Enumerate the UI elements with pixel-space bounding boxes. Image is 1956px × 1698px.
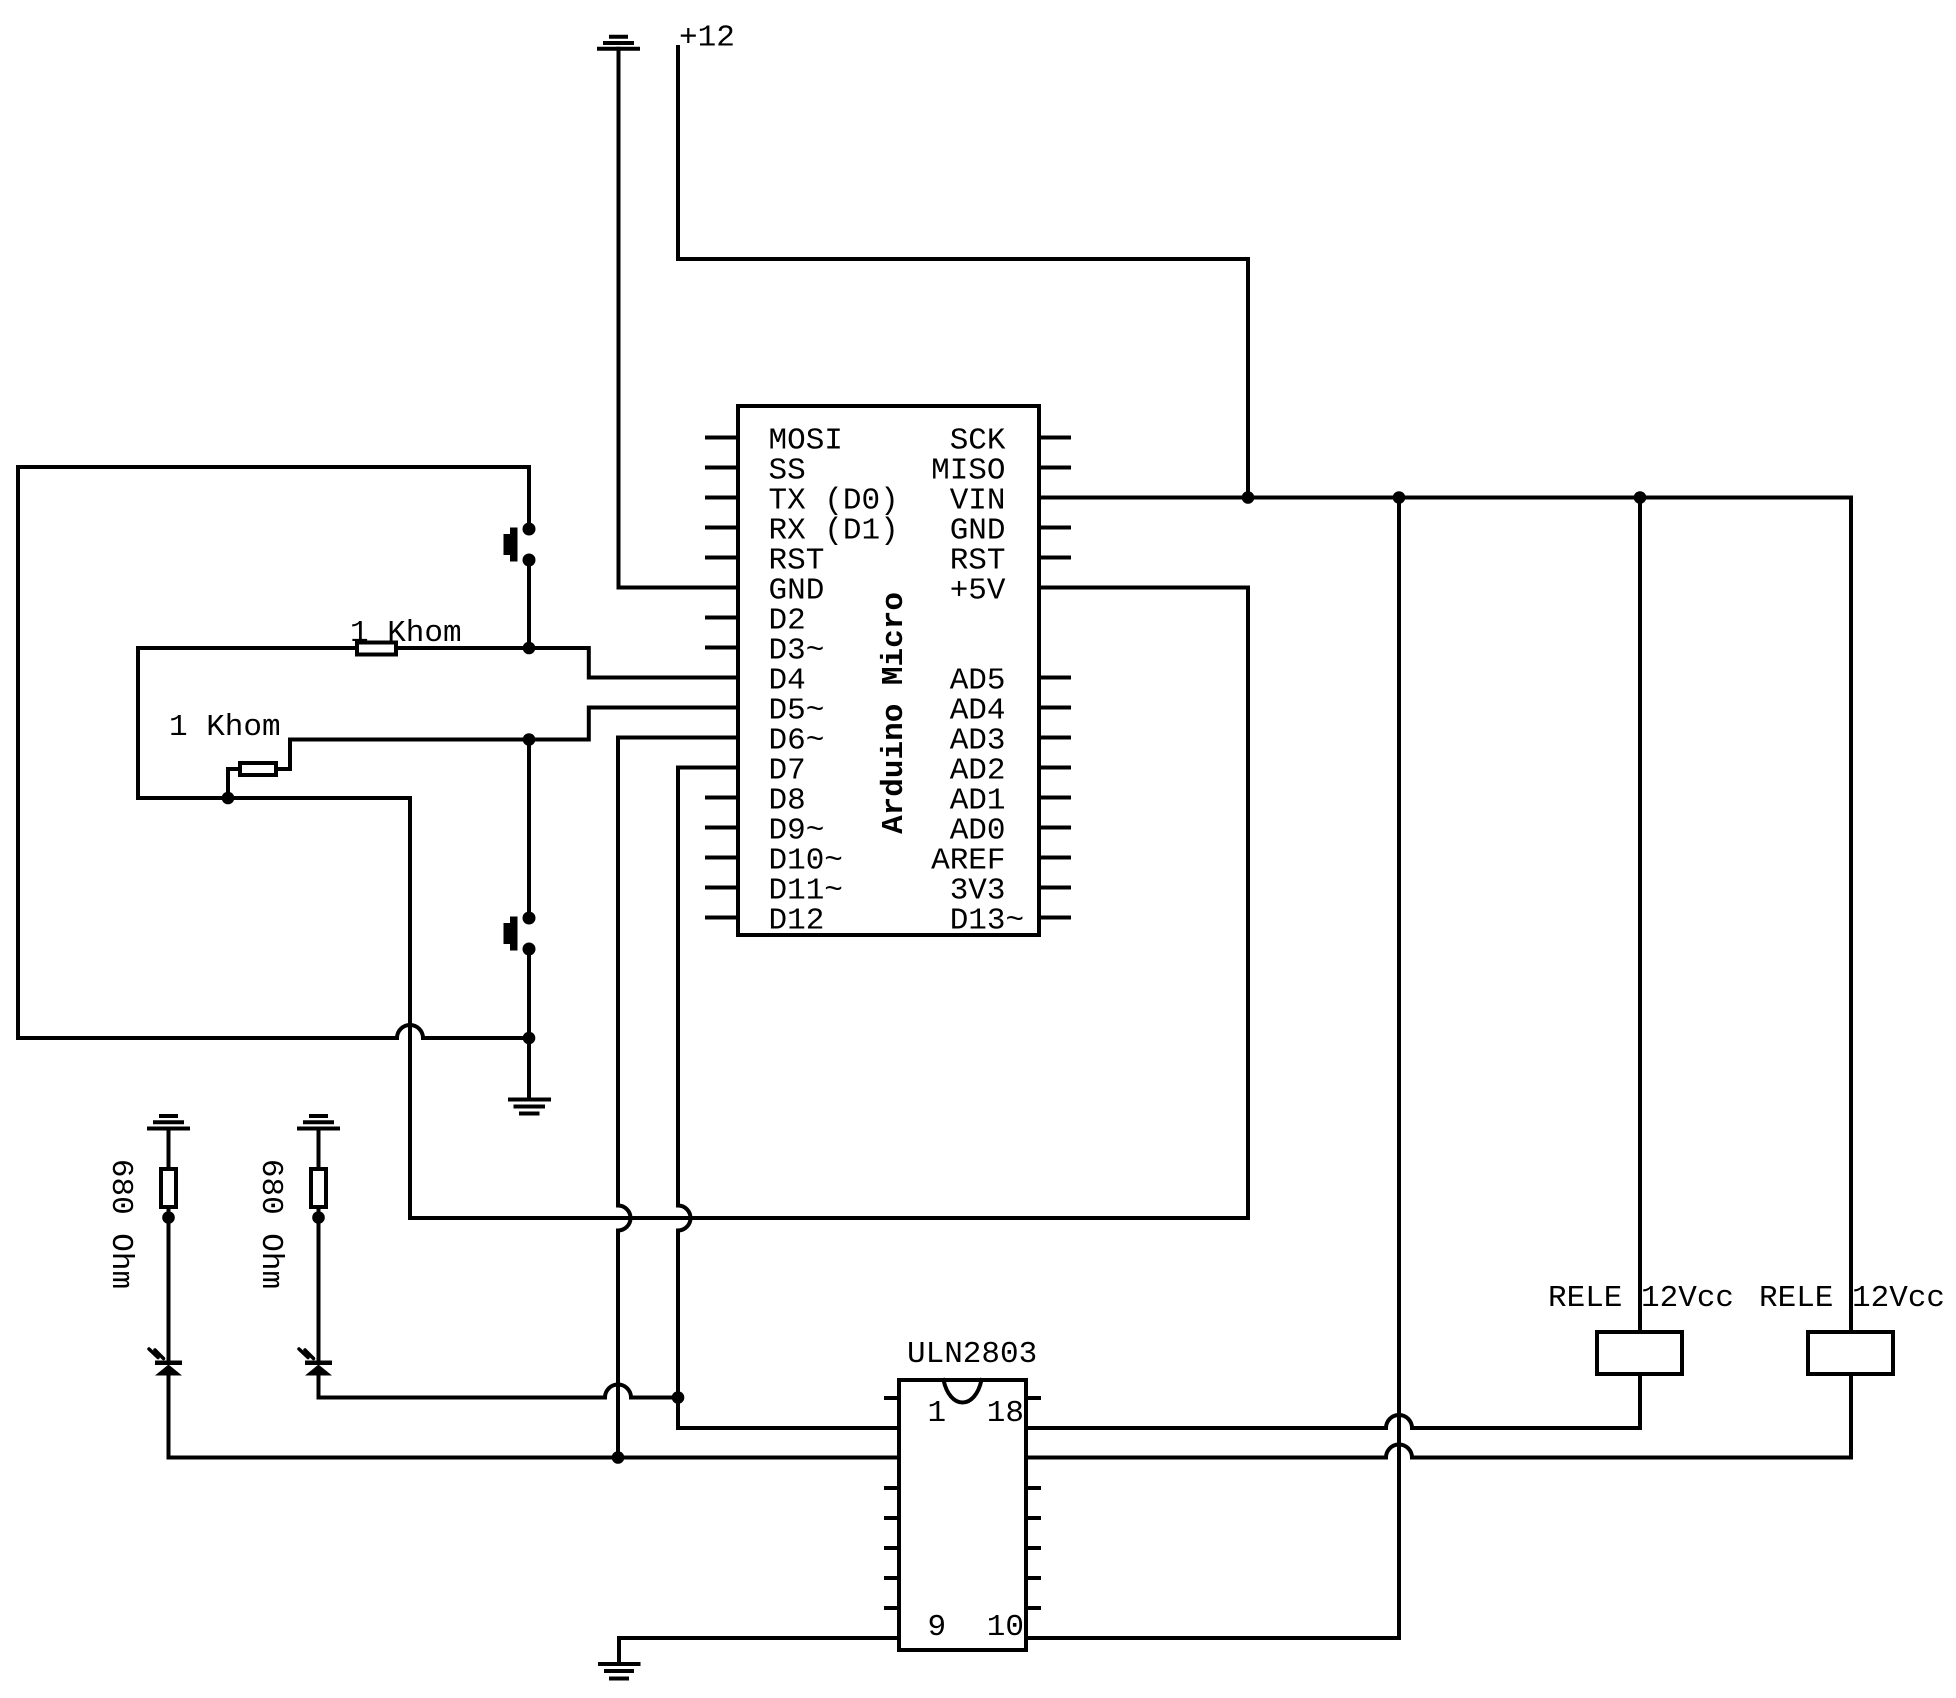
junction S2 top / R2 net <box>523 733 536 746</box>
svg-text:RELE 12Vcc: RELE 12Vcc <box>1759 1281 1945 1316</box>
wire LED1 cathode to ULN pin3 <box>169 1376 900 1458</box>
pushbutton S2 <box>504 912 536 956</box>
wire +12 to VIN rail <box>678 47 1248 498</box>
svg-text:9: 9 <box>928 1610 947 1645</box>
wire D6 to LED1 cathode line <box>618 738 738 1458</box>
junction S1 bottom / R1 net <box>523 642 536 655</box>
wire R2 right terminal jog <box>276 740 290 770</box>
wire relay K1 feed <box>1638 498 1642 1333</box>
wire R3 to LED1 <box>167 1207 171 1361</box>
wire relay K2 feed <box>1849 498 1853 1333</box>
svg-text:+12: +12 <box>679 21 735 56</box>
resistor R4 680 Ohm <box>311 1169 326 1207</box>
svg-text:1 Khom: 1 Khom <box>350 616 462 651</box>
svg-text:ULN2803: ULN2803 <box>907 1337 1037 1372</box>
resistor R3 680 Ohm <box>161 1169 176 1207</box>
svg-text:D13~: D13~ <box>950 904 1024 939</box>
U2 right pin stubs <box>1026 1398 1039 1608</box>
wire GND1 to Arduino GND pin <box>619 49 739 588</box>
svg-text:RELE 12Vcc: RELE 12Vcc <box>1548 1281 1734 1316</box>
junction dot below R3 <box>162 1211 175 1224</box>
svg-text:680 Ohm: 680 Ohm <box>253 1159 288 1289</box>
junction VIN/relay K1 feed <box>1634 491 1647 504</box>
wire S1 bottom to junction <box>527 560 531 648</box>
wire U2 pin9 to ground <box>619 1638 899 1662</box>
ground symbol GND2 (below S2) <box>510 1100 549 1114</box>
ULN2803 U2 body <box>899 1380 1026 1650</box>
wire GND3 to R3 <box>167 1129 171 1170</box>
wire VIN rail <box>1039 496 1851 500</box>
LED2 <box>299 1349 332 1376</box>
U1 right pin labels <box>931 424 1024 939</box>
wire R2/button S2 to D5 <box>290 708 738 740</box>
U1 left pin labels <box>769 424 899 939</box>
svg-text:Arduino Micro: Arduino Micro <box>877 592 912 834</box>
wire D7 to ULN pin2 <box>678 768 899 1429</box>
U2 left pin stubs <box>886 1398 899 1608</box>
svg-text:D12: D12 <box>769 904 825 939</box>
wire K1 to U2 pin17 <box>1026 1374 1640 1428</box>
ground symbol GND4 (LED2 branch) <box>299 1116 338 1129</box>
junction LED1 line / D6 <box>612 1451 625 1464</box>
wire R4 to LED2 <box>317 1207 321 1361</box>
wire LED2 cathode to D7 net <box>319 1376 679 1398</box>
junction R2 / +5V rail <box>222 792 235 805</box>
ground symbol GND1 (top) <box>599 37 638 49</box>
relay K1 coil <box>1597 1332 1682 1374</box>
resistor R2 1 Khom <box>240 763 276 775</box>
wire GND4 to R4 <box>317 1129 321 1170</box>
svg-text:680 Ohm: 680 Ohm <box>103 1159 138 1289</box>
pushbutton S1 <box>504 523 536 567</box>
junction VIN/ULN pin10 feed <box>1393 491 1406 504</box>
svg-text:1: 1 <box>928 1396 947 1431</box>
wire R1/button S1 to D4 <box>138 648 738 678</box>
wire +5V rail to pullup network <box>138 588 1248 1219</box>
U1 right pin stubs (SCK,MISO,GND,RST,AD5,AD4,AD3,AD2,AD1,AD0,AREF,3V3,D13~) <box>1039 438 1069 918</box>
ground symbol GND5 (U2 pin9) <box>600 1664 639 1679</box>
wire S1 top to ground loop <box>18 467 529 1038</box>
junction LED2 line / D7 <box>672 1391 685 1404</box>
svg-text:18: 18 <box>987 1396 1024 1431</box>
junction S2 bottom / loop / ground <box>523 1032 536 1045</box>
resistor R1 1 Khom <box>357 643 396 655</box>
wire VIN to U2 pin10 <box>1026 498 1399 1639</box>
wire S2 top to junction <box>527 740 531 919</box>
wire S2 bottom to ground junction <box>527 949 531 1038</box>
U1 left pin stubs (MOSI,SS,TX,RX,RST,D2,D3~,D8,D9~,D10~,D11~,D12) <box>707 438 738 918</box>
Arduino Micro U1 body <box>738 406 1039 935</box>
relay K2 coil <box>1808 1332 1893 1374</box>
wire K2 to U2 pin16 <box>1026 1374 1851 1458</box>
junction +12/VIN <box>1242 491 1255 504</box>
wire R2 left terminal to +5V node <box>228 769 240 798</box>
ground symbol GND3 (LED1 branch) <box>149 1116 188 1129</box>
svg-text:10: 10 <box>987 1610 1024 1645</box>
junction dot below R4 <box>312 1211 325 1224</box>
U2 notch <box>944 1380 982 1403</box>
svg-text:+5V: +5V <box>950 574 1006 609</box>
LED1 <box>149 1349 182 1376</box>
wire junction to ground GND2 <box>527 1038 531 1096</box>
svg-text:1 Khom: 1 Khom <box>169 710 281 745</box>
